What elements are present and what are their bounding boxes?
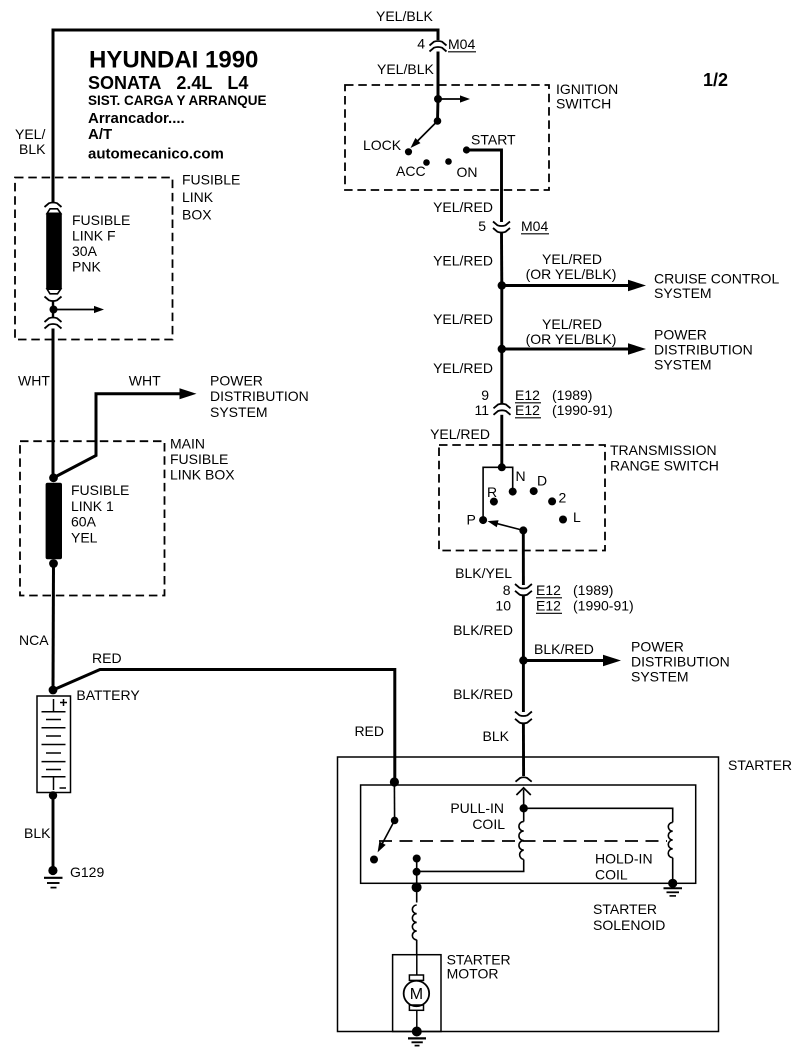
contact R bbox=[490, 498, 498, 506]
ignition switch wiper arm bbox=[408, 117, 441, 150]
svg-text:YEL/RED: YEL/RED bbox=[430, 426, 490, 442]
node above fusible link 1 bbox=[49, 473, 58, 482]
wire BLK/RED down to connector bbox=[522, 661, 525, 713]
node: solenoid coil feed junction bbox=[520, 804, 528, 812]
svg-text:SYSTEM: SYSTEM bbox=[654, 285, 712, 301]
node: ignition feed junction with arrow bbox=[434, 95, 470, 103]
starter outer box bbox=[338, 757, 719, 1032]
label HOLD-IN COIL bbox=[595, 851, 653, 883]
svg-text:LOCK: LOCK bbox=[363, 137, 402, 153]
svg-text:POWER: POWER bbox=[654, 327, 707, 343]
wire to N contact bbox=[502, 467, 513, 491]
svg-text:E12: E12 bbox=[536, 598, 561, 614]
svg-text:1/2: 1/2 bbox=[703, 70, 728, 90]
wire YEL/BLK into ignition switch bbox=[437, 52, 440, 100]
svg-text:YEL/RED: YEL/RED bbox=[433, 311, 493, 327]
svg-text:PNK: PNK bbox=[72, 259, 101, 275]
svg-text:E12: E12 bbox=[536, 582, 561, 598]
label FUSIBLE LINK F 30A PNK bbox=[72, 212, 130, 275]
svg-text:STARTER: STARTER bbox=[728, 757, 792, 773]
wire segment at junction bbox=[52, 302, 54, 319]
wire BLK into starter bbox=[522, 724, 525, 776]
svg-text:BATTERY: BATTERY bbox=[76, 687, 140, 703]
node: battery positive junction bbox=[49, 686, 58, 695]
svg-text:DISTRIBUTION: DISTRIBUTION bbox=[654, 342, 753, 358]
wire YEL/BLK: top run from fusible link box up and across to ignition switch bbox=[53, 30, 438, 203]
svg-text:COIL: COIL bbox=[472, 816, 505, 832]
svg-text:ON: ON bbox=[457, 164, 478, 180]
connector M04 pin 5 bbox=[493, 222, 510, 233]
svg-text:30A: 30A bbox=[72, 243, 98, 259]
node below fusible link 1 bbox=[49, 559, 58, 568]
svg-text:STARTER: STARTER bbox=[593, 901, 657, 917]
main fusible link box (dashed) bbox=[20, 441, 165, 595]
svg-text:YEL/: YEL/ bbox=[15, 126, 45, 142]
svg-text:LINK F: LINK F bbox=[72, 228, 116, 244]
wire BLK: battery to ground bbox=[52, 796, 55, 867]
label POWER DISTRIBUTION SYSTEM (left) bbox=[210, 373, 309, 421]
contact P bbox=[479, 516, 487, 524]
label YEL/RED (OR YEL/BLK) bbox=[526, 251, 617, 282]
svg-text:RED: RED bbox=[92, 650, 122, 666]
svg-text:L: L bbox=[573, 509, 581, 525]
svg-text:M04: M04 bbox=[448, 36, 475, 52]
svg-text:FUSIBLE: FUSIBLE bbox=[71, 482, 129, 498]
label STARTER SOLENOID bbox=[593, 901, 665, 933]
connector E12 pins 9/11 bbox=[494, 404, 511, 415]
svg-text:(OR YEL/BLK): (OR YEL/BLK) bbox=[526, 331, 617, 347]
label POWER DISTRIBUTION SYSTEM bbox=[654, 327, 753, 373]
contact LOCK bbox=[405, 148, 412, 155]
node: battery negative bbox=[49, 791, 57, 799]
wire YEL/RED down to power tap bbox=[500, 286, 503, 350]
connector half at fuse F top bbox=[45, 203, 62, 208]
svg-text:SOLENOID: SOLENOID bbox=[593, 917, 665, 933]
svg-text:PULL-IN: PULL-IN bbox=[450, 800, 504, 816]
wire from chevron to coil junction bbox=[523, 790, 525, 809]
solenoid fixed contact (right) + motor feed bbox=[412, 855, 422, 903]
svg-text:TRANSMISSION: TRANSMISSION bbox=[610, 442, 717, 458]
transmission range switch dashed box bbox=[439, 445, 605, 551]
ground G129 bbox=[44, 866, 63, 888]
wire BLK/YEL out of range switch bbox=[522, 530, 525, 585]
svg-text:M: M bbox=[410, 986, 423, 1003]
svg-text:YEL/RED: YEL/RED bbox=[542, 251, 602, 267]
label E12 (underlined) x2 bbox=[536, 582, 562, 598]
svg-text:(1990-91): (1990-91) bbox=[573, 598, 634, 614]
svg-text:COIL: COIL bbox=[595, 867, 628, 883]
svg-text:BLK: BLK bbox=[483, 728, 510, 744]
contact N bbox=[509, 488, 517, 496]
svg-text:SYSTEM: SYSTEM bbox=[654, 357, 712, 373]
label TRANSMISSION RANGE SWITCH bbox=[610, 442, 719, 474]
svg-text:DISTRIBUTION: DISTRIBUTION bbox=[631, 654, 730, 670]
starter solenoid inner box bbox=[361, 785, 696, 883]
solenoid switch arm bbox=[374, 785, 398, 854]
svg-text:60A: 60A bbox=[71, 514, 97, 530]
pull-in coil bbox=[417, 808, 524, 871]
svg-text:LINK 1: LINK 1 bbox=[71, 498, 114, 514]
wire YEL/RED down to cruise tap bbox=[500, 233, 503, 286]
svg-text:YEL/RED: YEL/RED bbox=[433, 199, 493, 215]
svg-text:5: 5 bbox=[478, 218, 486, 234]
starter motor M bbox=[404, 955, 430, 1032]
connector M04 pin 4 bbox=[430, 41, 447, 52]
svg-text:WHT: WHT bbox=[129, 373, 161, 389]
svg-text:MAIN: MAIN bbox=[170, 436, 205, 452]
svg-text:RANGE SWITCH: RANGE SWITCH bbox=[610, 458, 719, 474]
svg-text:FUSIBLE: FUSIBLE bbox=[72, 212, 130, 228]
svg-text:automecanico.com: automecanico.com bbox=[88, 146, 224, 163]
svg-text:9: 9 bbox=[481, 387, 489, 403]
svg-text:POWER: POWER bbox=[631, 639, 684, 655]
svg-text:BLK: BLK bbox=[19, 141, 46, 157]
wire YEL/RED down to E12 bbox=[500, 349, 503, 404]
fusible link box (dashed) bbox=[15, 178, 173, 340]
svg-text:E12: E12 bbox=[515, 402, 540, 418]
contact START bbox=[463, 146, 470, 153]
svg-text:BOX: BOX bbox=[182, 207, 212, 223]
connector (double) below tap bbox=[45, 318, 62, 329]
svg-text:(1989): (1989) bbox=[573, 582, 613, 598]
label STARTER MOTOR bbox=[447, 952, 511, 982]
svg-text:SIST. CARGA Y ARRANQUE: SIST. CARGA Y ARRANQUE bbox=[88, 93, 267, 108]
node: fusible link box tap with feed arrow bbox=[50, 306, 105, 314]
label FUSIBLE LINK 1 60A YEL bbox=[71, 482, 129, 546]
battery bbox=[37, 696, 71, 793]
node: power distribution tap with arrow bbox=[519, 655, 621, 667]
label YEL/ BLK (left) bbox=[15, 126, 46, 157]
svg-text:N: N bbox=[516, 468, 526, 484]
label FUSIBLE LINK BOX bbox=[182, 172, 240, 223]
svg-text:NCA: NCA bbox=[19, 632, 49, 648]
ignition switch dashed box bbox=[345, 85, 549, 190]
svg-text:HOLD-IN: HOLD-IN bbox=[595, 851, 653, 867]
svg-text:START: START bbox=[471, 132, 516, 148]
svg-text:DISTRIBUTION: DISTRIBUTION bbox=[210, 388, 309, 404]
svg-text:D: D bbox=[537, 473, 547, 489]
ground (starter motor) bbox=[408, 1027, 426, 1046]
svg-text:R: R bbox=[487, 484, 497, 500]
ground (hold-in coil) bbox=[664, 879, 683, 896]
connector half at fuse F bottom bbox=[45, 297, 62, 302]
svg-text:10: 10 bbox=[495, 598, 511, 614]
arrow into solenoid (chevron) bbox=[516, 788, 530, 795]
svg-text:Arrancador....: Arrancador.... bbox=[88, 110, 185, 127]
wire BLK/RED down to tap bbox=[522, 596, 525, 661]
wire WHT branch to power distribution system (arrow) bbox=[54, 388, 197, 477]
node: solenoid switch feed (on RED wire) bbox=[390, 777, 399, 786]
wire YEL/RED into transmission range switch bbox=[500, 415, 503, 468]
svg-text:FUSIBLE: FUSIBLE bbox=[182, 172, 240, 188]
label M04 (underlined) bbox=[521, 218, 549, 234]
wire WHT: down to main fusible link box bbox=[52, 329, 55, 478]
svg-text:LINK: LINK bbox=[182, 189, 214, 205]
svg-text:WHT: WHT bbox=[18, 373, 50, 389]
svg-text:YEL/BLK: YEL/BLK bbox=[376, 8, 433, 24]
svg-text:E12: E12 bbox=[515, 387, 540, 403]
svg-text:(OR YEL/BLK): (OR YEL/BLK) bbox=[526, 266, 617, 282]
svg-text:4: 4 bbox=[417, 36, 425, 52]
wire to wiper pivot bbox=[436, 99, 439, 121]
hold-in coil feed wire bbox=[524, 808, 673, 822]
label POWER DISTRIBUTION SYSTEM bbox=[631, 639, 730, 685]
svg-text:BLK/YEL: BLK/YEL bbox=[455, 565, 512, 581]
svg-text:FUSIBLE: FUSIBLE bbox=[170, 451, 228, 467]
wire NCA: down to battery bbox=[52, 564, 56, 691]
svg-text:G129: G129 bbox=[70, 864, 104, 880]
svg-text:POWER: POWER bbox=[210, 373, 263, 389]
node: feed junction bbox=[498, 463, 506, 471]
label YEL/RED (OR YEL/BLK) bbox=[526, 316, 617, 347]
wire YEL/RED from START out of switch bbox=[467, 150, 502, 222]
label IGNITION SWITCH bbox=[556, 81, 618, 112]
svg-text:A/T: A/T bbox=[88, 126, 112, 143]
hold-in coil bbox=[668, 822, 672, 883]
svg-text:BLK/RED: BLK/RED bbox=[453, 622, 513, 638]
fusible link F bbox=[46, 209, 62, 294]
svg-text:YEL/RED: YEL/RED bbox=[433, 253, 493, 269]
svg-text:YEL/RED: YEL/RED bbox=[542, 316, 602, 332]
contact ACC bbox=[423, 159, 430, 166]
svg-text:SYSTEM: SYSTEM bbox=[631, 669, 689, 685]
solenoid plunger dashed line bbox=[379, 840, 667, 842]
in-line connector bbox=[515, 712, 532, 724]
svg-text:HYUNDAI 1990: HYUNDAI 1990 bbox=[89, 47, 258, 74]
range switch wiper arm (points at P) bbox=[487, 518, 528, 535]
svg-text:SONATA 2.4L L4: SONATA 2.4L L4 bbox=[88, 73, 248, 93]
svg-text:BLK: BLK bbox=[24, 825, 51, 841]
label CRUISE CONTROL SYSTEM bbox=[654, 271, 779, 302]
fusible link 1 bbox=[46, 483, 62, 560]
svg-text:RED: RED bbox=[354, 723, 384, 739]
svg-text:SYSTEM: SYSTEM bbox=[210, 404, 268, 420]
svg-text:YEL/RED: YEL/RED bbox=[433, 360, 493, 376]
solenoid fixed contact (left) bbox=[370, 856, 378, 864]
title block bbox=[88, 47, 267, 163]
svg-text:ACC: ACC bbox=[396, 163, 426, 179]
contact L bbox=[559, 516, 567, 524]
node: power distribution tap with arrow bbox=[498, 343, 646, 355]
wire RED: battery to starter bbox=[53, 670, 395, 782]
svg-text:MOTOR: MOTOR bbox=[447, 966, 499, 982]
contact 2 bbox=[548, 497, 556, 505]
label E12 (underlined) x2 bbox=[515, 387, 541, 403]
svg-text:(1989): (1989) bbox=[552, 387, 592, 403]
svg-text:2: 2 bbox=[559, 490, 567, 506]
svg-text:YEL: YEL bbox=[71, 530, 98, 546]
svg-text:P: P bbox=[467, 512, 476, 528]
contact D bbox=[530, 487, 538, 495]
label PULL-IN COIL bbox=[450, 800, 505, 832]
node: cruise control tap with arrow bbox=[498, 280, 646, 292]
svg-text:BLK/RED: BLK/RED bbox=[453, 686, 513, 702]
svg-text:(1990-91): (1990-91) bbox=[552, 402, 613, 418]
svg-text:BLK/RED: BLK/RED bbox=[534, 641, 594, 657]
svg-text:YEL/BLK: YEL/BLK bbox=[377, 61, 434, 77]
wire to P contact bbox=[483, 467, 502, 520]
connector half at starter input bbox=[516, 777, 532, 781]
svg-text:11: 11 bbox=[474, 402, 489, 418]
svg-text:M04: M04 bbox=[521, 218, 548, 234]
starter motor box bbox=[393, 955, 441, 1032]
label MAIN FUSIBLE LINK BOX bbox=[170, 436, 235, 483]
contact ON bbox=[445, 158, 452, 165]
svg-text:8: 8 bbox=[503, 582, 511, 598]
label M04 (underlined) bbox=[448, 36, 476, 52]
svg-text:LINK BOX: LINK BOX bbox=[170, 467, 235, 483]
connector E12 pins 8/10 bbox=[515, 584, 532, 595]
svg-text:SWITCH: SWITCH bbox=[556, 96, 611, 112]
starter motor feed coil bbox=[412, 905, 416, 955]
